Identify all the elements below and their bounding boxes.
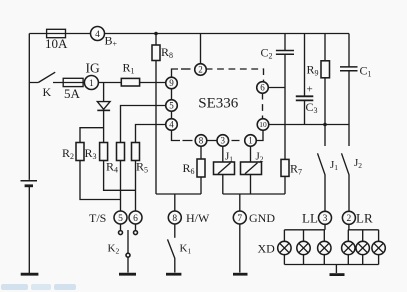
terminal LL (3) — [319, 211, 332, 224]
wire pin3 to J1 — [222, 146, 224, 163]
relay coil J2 — [241, 162, 262, 175]
resistor R6 — [197, 159, 205, 177]
contact point 5 — [119, 231, 123, 235]
ground (K2) — [119, 273, 136, 276]
pin 5 — [166, 100, 178, 112]
svg-text:XD: XD — [258, 242, 276, 256]
wire diode to R3 — [103, 110, 105, 142]
IC SE336 dashed outline top — [181, 68, 191, 70]
terminal H/W (8) — [168, 211, 181, 224]
svg-text:9: 9 — [169, 78, 174, 88]
wire LL to lamp bus — [324, 224, 326, 230]
fuse 5A — [63, 78, 83, 86]
svg-text:5: 5 — [118, 214, 123, 224]
pin 9 — [166, 77, 178, 89]
wire R5 top to pin4 — [136, 125, 167, 143]
svg-text:10A: 10A — [45, 36, 68, 51]
wire LR to lamp bus — [348, 224, 350, 230]
pin 4 — [166, 119, 178, 131]
capacitor C3 — [296, 34, 314, 125]
resistor R2 — [76, 143, 84, 161]
wire lamp bottom bus — [284, 264, 378, 266]
svg-text:5: 5 — [169, 101, 174, 111]
terminal T/S (6) — [129, 211, 142, 224]
relay contact J2 — [342, 153, 350, 211]
svg-text:T/S: T/S — [89, 211, 106, 225]
svg-text:10: 10 — [259, 120, 267, 129]
pin 1 — [245, 135, 257, 147]
lamp XD3 — [318, 241, 331, 254]
wire pin6 stub — [268, 87, 286, 89]
svg-text:3: 3 — [323, 214, 328, 224]
pin 8 — [195, 135, 207, 147]
fuse 10A — [47, 29, 66, 37]
ground (K1) — [166, 273, 181, 276]
svg-text:LR: LR — [356, 211, 373, 226]
terminal IG (1) — [84, 76, 98, 90]
resistor R4 — [117, 143, 125, 161]
svg-text:H/W: H/W — [186, 211, 210, 225]
svg-text:6: 6 — [133, 214, 138, 224]
svg-text:LL: LL — [302, 211, 318, 226]
svg-text:+: + — [307, 84, 313, 96]
wire right lamp bus — [348, 229, 379, 231]
wire J1 bottom — [222, 175, 224, 195]
wire R6 top — [200, 146, 202, 160]
wire R9 column — [324, 34, 326, 147]
wire R3 bottom — [104, 161, 136, 191]
wire lamp stubs bottom — [284, 255, 378, 265]
battery GB — [21, 181, 38, 186]
wire stub terminal 5 — [120, 224, 122, 230]
resistor R7 — [281, 159, 289, 176]
wire pin2 riser — [200, 34, 202, 65]
svg-text:2: 2 — [347, 214, 352, 224]
junction R8 top — [154, 32, 158, 36]
terminal LR (2) — [342, 211, 355, 224]
ground (battery) — [21, 273, 39, 276]
svg-text:SE336: SE336 — [198, 96, 239, 112]
wire stub terminal 6 — [135, 224, 137, 230]
wire branch to R2 — [80, 128, 104, 143]
svg-text:3: 3 — [221, 136, 226, 146]
wire pin10 rail — [269, 124, 350, 126]
wire left lamp bus — [284, 229, 325, 231]
svg-text:GND: GND — [249, 211, 275, 225]
svg-text:8: 8 — [199, 136, 204, 146]
IC SE336 dashed outline right — [262, 93, 264, 120]
wire R2 bottom — [80, 161, 121, 200]
IC SE336 dashed outline left — [172, 69, 181, 141]
svg-text:5A: 5A — [64, 86, 81, 101]
resistor R3 — [100, 143, 108, 161]
pin 10 — [257, 119, 269, 131]
svg-text:4: 4 — [169, 120, 174, 130]
IC SE336 dashed outline bottom — [183, 140, 240, 142]
switch K1 — [168, 224, 175, 273]
svg-text:2: 2 — [198, 65, 203, 75]
pin 6 — [257, 82, 269, 94]
wire top rail B+ — [29, 33, 349, 35]
terminal GND (7) — [233, 211, 246, 224]
wire diode drop — [103, 83, 105, 102]
wire H/W drop — [174, 194, 176, 211]
svg-text:6: 6 — [260, 83, 265, 93]
wire R8 column — [155, 34, 157, 195]
wire GND bus — [223, 193, 285, 195]
wire GND drop — [239, 194, 241, 211]
lamp XD2 — [297, 241, 310, 254]
relay contact J1 — [318, 153, 326, 211]
lamp XD6 — [372, 241, 385, 254]
wire R7 bottom — [284, 176, 286, 194]
wire H/W bus — [156, 193, 201, 195]
svg-text:7: 7 — [237, 214, 242, 224]
wire R6 bottom — [200, 177, 202, 194]
svg-text:1: 1 — [248, 136, 253, 146]
wire R4 to terminal 5 — [120, 161, 122, 212]
svg-text:1: 1 — [89, 79, 94, 89]
wire R5 to terminal 6 — [135, 161, 137, 212]
resistor R8 — [152, 45, 160, 61]
wire J2 bottom — [250, 175, 252, 195]
svg-text:4: 4 — [95, 30, 100, 40]
wire lamp stubs top — [284, 230, 378, 242]
resistor R5 — [132, 143, 140, 161]
svg-text:IG: IG — [86, 60, 100, 75]
diode VD — [97, 102, 110, 111]
terminal B+ (4) — [91, 27, 105, 41]
capacitor C2 — [276, 34, 294, 160]
pin 2 — [195, 64, 207, 76]
lamp XD5 — [356, 241, 369, 254]
pin 3 — [217, 135, 229, 147]
wire GND down — [239, 224, 241, 273]
switch K2 — [126, 230, 130, 273]
relay coil J1 — [214, 162, 235, 175]
wire K row — [29, 82, 84, 84]
wire lamp ground drop — [335, 265, 337, 274]
resistor R9 — [321, 61, 330, 78]
switch K — [38, 72, 55, 82]
wire left rail — [28, 34, 30, 274]
ground (lamps) — [330, 273, 345, 276]
lamp XD4 — [342, 241, 355, 254]
lamp XD1 — [278, 241, 291, 254]
wire IG to R1 to pin9 — [98, 82, 166, 84]
svg-text:8: 8 — [172, 214, 177, 224]
watermark — [1, 284, 76, 290]
capacitor C1 — [340, 34, 358, 147]
terminal T/S (5) — [114, 211, 127, 224]
wire pin1 to J2 — [250, 146, 252, 163]
junction R9 rail — [323, 123, 327, 127]
ground (GND) — [233, 273, 248, 276]
resistor R1 — [121, 78, 139, 86]
wire R4 top to pin5 — [121, 106, 167, 143]
contact point 6 — [134, 231, 138, 235]
wire pin1 to pin10 — [256, 130, 264, 141]
svg-text:K: K — [43, 85, 52, 99]
